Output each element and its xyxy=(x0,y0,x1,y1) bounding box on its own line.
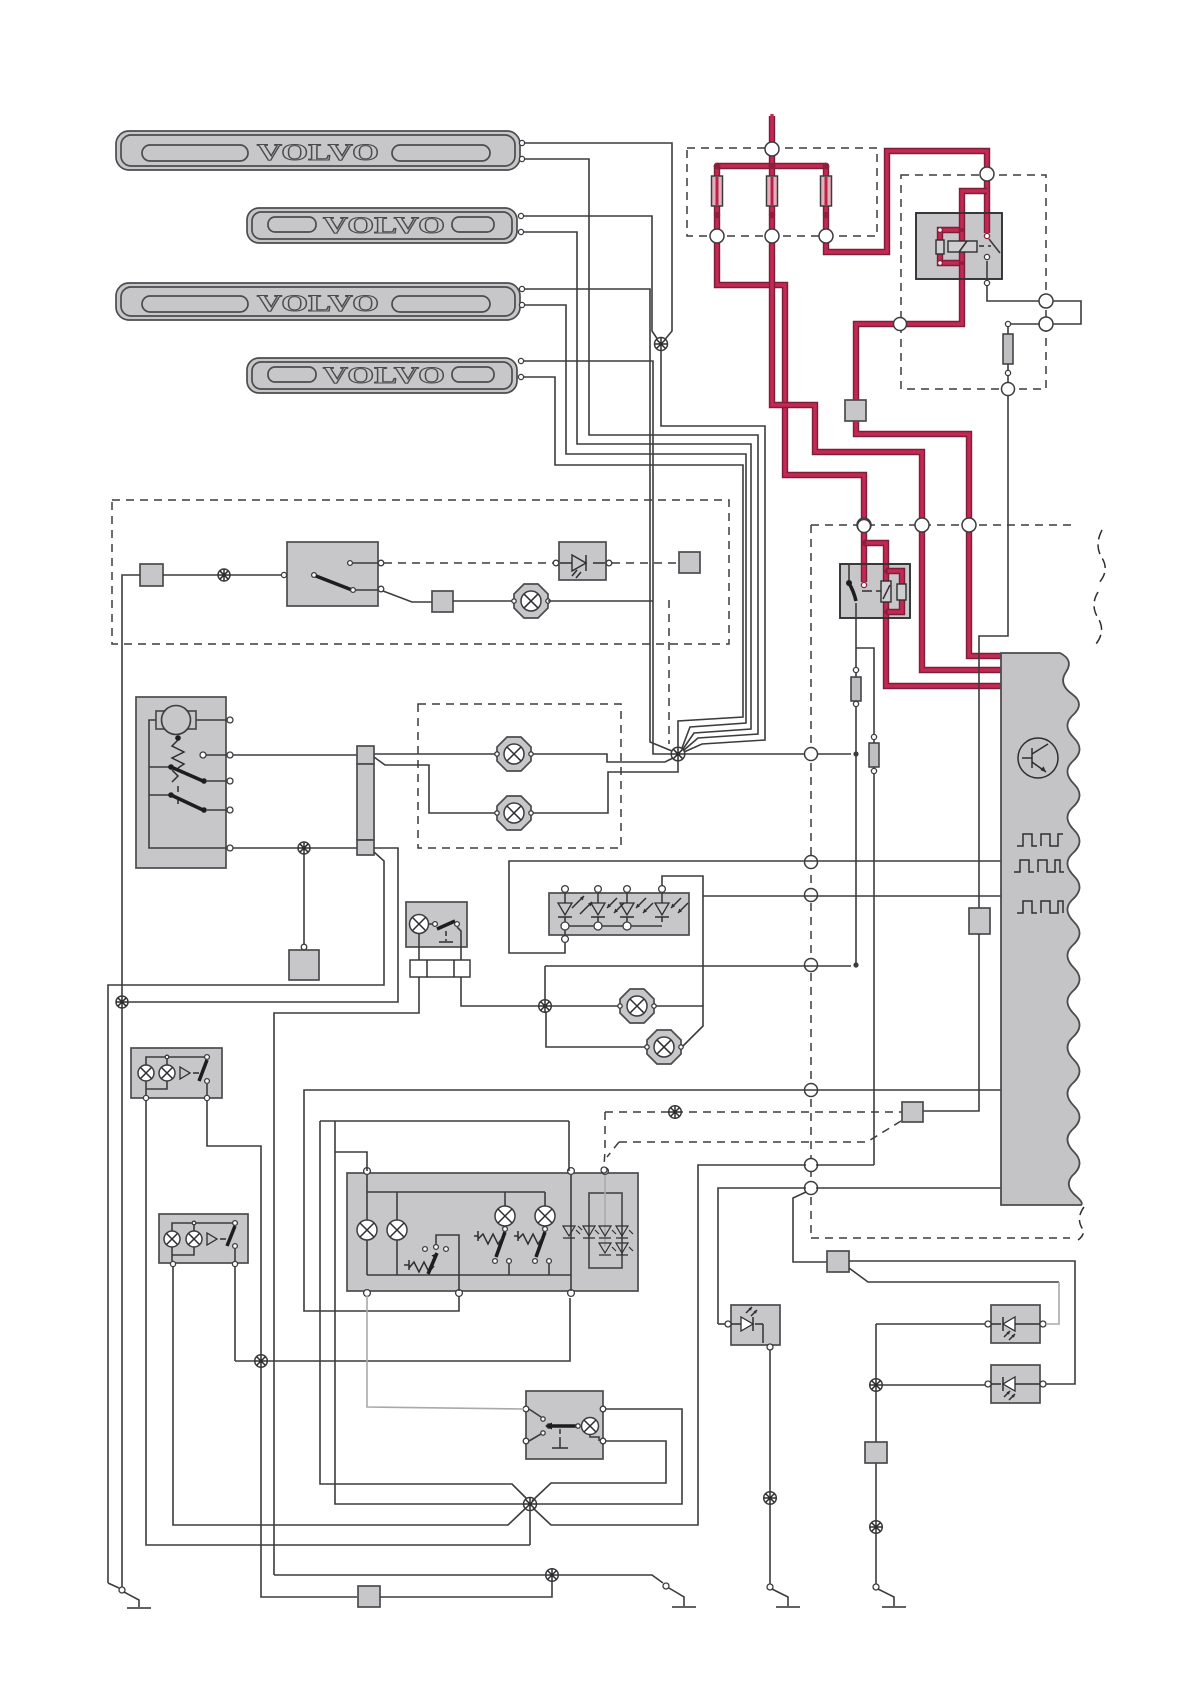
pulse waveform symbol 3 xyxy=(1017,901,1063,913)
connector square S-chain xyxy=(827,1251,849,1272)
wire K1 output down to CEM connector column xyxy=(979,395,1008,908)
splice on ground rail xyxy=(546,1569,559,1582)
wire bar to lamp L1 xyxy=(374,753,514,755)
door courtesy unit D2 xyxy=(159,1214,248,1267)
wire D2 lamps to X splice xyxy=(173,1267,528,1525)
wire console pin to trunk switch (light) xyxy=(367,1296,524,1409)
connector circle K2 feed xyxy=(858,520,871,533)
upper right LED module xyxy=(985,1305,1046,1343)
wire junction to console pin xyxy=(235,1298,570,1361)
svg-text:VOLVO: VOLVO xyxy=(323,363,445,388)
wire lamp L0 down to splice S2 via x653 xyxy=(548,600,653,602)
lamp L4 (octagon) xyxy=(645,1030,683,1064)
ground terminal block square xyxy=(289,950,319,980)
LED indicator module in door dashed box xyxy=(553,542,612,580)
dashed relay K1 box outline xyxy=(901,175,1046,389)
relay K1 xyxy=(916,213,1002,279)
lamp L0 (octagon) xyxy=(512,584,550,618)
lower right LED module xyxy=(985,1365,1046,1403)
connector strip under glove unit xyxy=(410,960,470,977)
transistor symbol in CEM xyxy=(1018,738,1058,778)
splice on D-switch rail xyxy=(255,1355,268,1368)
wire plate1 pin a to splice S1 xyxy=(524,143,672,343)
lamp L1 (octagon) xyxy=(495,737,533,771)
splice on dashed line A xyxy=(669,1106,682,1119)
wire D1 switch to ground rail xyxy=(207,1101,357,1597)
junction dots on red bus xyxy=(717,177,826,205)
wire C1 to left margin down xyxy=(122,575,140,1588)
wire bar ground A down left margin xyxy=(127,848,398,1002)
wire X splice SE to fuse chain xyxy=(533,1165,806,1525)
wire lamp L1 return to splice S2 xyxy=(533,754,673,762)
door sill scuff plate S4 (rear right) xyxy=(247,358,524,393)
splice on left margin ground wire xyxy=(116,996,128,1008)
door sill scuff plate S3 (front right) xyxy=(116,283,525,320)
wire console top pin B feed xyxy=(568,1121,570,1171)
splice S1 xyxy=(655,338,668,351)
wire splice S3 up to CEM line xyxy=(544,966,546,1000)
svg-text:VOLVO: VOLVO xyxy=(257,140,379,165)
wire switch to lamp L0 xyxy=(383,591,432,602)
wire fuse1 to relay K2 circuit (red) xyxy=(714,206,720,230)
motor unit M1 (power sunroof / seat) xyxy=(136,697,233,868)
wire X splice south to D1 rail xyxy=(529,1510,531,1545)
wire plate3 pin b xyxy=(524,305,746,748)
glove box lamp unit xyxy=(406,902,467,947)
dashed link CEM to console (line A) xyxy=(605,1111,902,1113)
relay K1 body xyxy=(916,213,1002,279)
pulse waveform symbol 1 xyxy=(1017,834,1063,846)
connector circles on dashed left edge xyxy=(805,748,818,761)
relay K2 coil parallel resistor branch (red) xyxy=(886,571,902,612)
connector square before lamp L0 xyxy=(432,591,453,612)
wire splice S2 to connector circle and junction xyxy=(685,753,851,755)
connector square on CEM link xyxy=(902,1102,923,1122)
ground G3 xyxy=(767,1584,800,1607)
dashed lamp box (courtesy lamps) xyxy=(418,704,621,848)
ground G4 xyxy=(873,1584,906,1607)
wire relay K2 coil to CEM (red) xyxy=(886,612,1001,686)
connector square on right rail xyxy=(865,1442,887,1463)
wire bar diagonal to lamp L2 xyxy=(374,757,514,813)
splice on motor ground wire xyxy=(298,842,310,854)
wire lamp L3 to lamp L4 xyxy=(656,1006,703,1046)
wire plate4 pin a xyxy=(523,361,672,754)
lamp L3 (octagon) xyxy=(618,989,656,1023)
wire fuse1 feed to relay K2 (red) xyxy=(861,531,867,582)
wire lamp L2 return to splice S2 xyxy=(533,761,678,813)
fuse F1 xyxy=(712,176,723,206)
wire glove lamp down xyxy=(274,933,419,1575)
connector square on ground rail xyxy=(358,1586,380,1607)
wire middle LED left pin xyxy=(718,1323,728,1325)
left long dashed box (door area) xyxy=(112,500,729,644)
wire connector to lamp L0 xyxy=(453,600,514,602)
fuse F3 xyxy=(821,176,832,206)
connector circle battery feed xyxy=(765,142,779,156)
wire D2 switch to junction splice xyxy=(234,1267,236,1361)
wire fuse2 to CEM (red) xyxy=(769,206,775,230)
wire LED array pin4 to lamp chain and CEM xyxy=(662,876,703,1006)
relay K2 body xyxy=(840,564,910,618)
wire relay K1 coil loop (red) xyxy=(940,230,962,263)
wire LED array ground bus to CEM xyxy=(509,861,1001,953)
wire splice S1 output into bundle xyxy=(661,350,765,752)
splice lower on right rail xyxy=(870,1521,883,1534)
connector square right of LED module xyxy=(679,552,700,573)
X splice (courtesy feed node) xyxy=(523,1497,537,1511)
wire relay K1 coil to CEM via connector (red) xyxy=(906,191,987,324)
wire fuse3 to relay K1 (red) xyxy=(823,206,829,230)
big dashed box bottom edge xyxy=(811,1237,1070,1239)
wire splice down to terminal block xyxy=(303,854,305,944)
wire battery feed (red) xyxy=(769,116,775,146)
middle LED module (illumination) xyxy=(725,1305,780,1350)
wire splice S3 to lamp L3 xyxy=(551,1005,618,1007)
wire lamp L4 return to splice S3 xyxy=(546,1012,645,1047)
fuse on K1 output xyxy=(1007,327,1009,334)
wire relay K1 switch output xyxy=(986,261,988,283)
wire plate2 pin b xyxy=(523,232,751,749)
wire bus branch to X splice west xyxy=(335,1121,682,1504)
dashed stub below xyxy=(668,600,670,744)
door sill scuff plate S1 (front left) xyxy=(116,131,525,170)
ground G1 (left margin) xyxy=(108,1583,151,1608)
connector circles on dashed top edge xyxy=(857,518,871,532)
relay K2 xyxy=(840,540,910,618)
connector square on K1 coil red wire xyxy=(845,400,866,421)
wire trunk to middle region xyxy=(718,1188,806,1324)
door courtesy unit D1 xyxy=(131,1048,222,1101)
connector square on CEM column xyxy=(969,908,990,934)
wire D1 lamps to X splice rail xyxy=(146,1101,530,1545)
wire splice to ground G2 xyxy=(558,1575,663,1583)
big dashed box (CEM area) top edge xyxy=(811,524,1077,526)
svg-text:VOLVO: VOLVO xyxy=(323,213,445,238)
connector circle relay K1 feed xyxy=(980,167,994,181)
dashed fuse box outline xyxy=(687,148,877,236)
wire junction to fuse chain vertical xyxy=(855,754,857,965)
wire feed bus y1121 xyxy=(320,1120,569,1122)
svg-text:VOLVO: VOLVO xyxy=(257,291,379,316)
wire middle LED to ground G3 xyxy=(769,1350,771,1584)
splice on middle LED ground wire xyxy=(764,1492,777,1505)
wire right rail to upper LED module xyxy=(876,1323,986,1325)
pulse waveform symbol 2 xyxy=(1014,860,1064,872)
wire K2 switch output with fuse xyxy=(855,603,857,670)
wire bus left branch to X splice NW diagonal xyxy=(320,1121,528,1500)
big dashed box left edge xyxy=(810,525,812,1238)
splice S3 xyxy=(539,1000,552,1013)
wire glove switch down to lamp L3 line xyxy=(457,927,538,1006)
connector square C1 in door dashed box xyxy=(140,564,163,586)
wire glove lamp rail to splice (gray) xyxy=(274,1574,546,1576)
torn connection marks above and below CEM xyxy=(1094,530,1105,644)
dashed link line B xyxy=(619,1121,901,1142)
dashed wire switch to LED module xyxy=(384,562,555,564)
wire plate3 pin a xyxy=(524,289,672,751)
door contact switch box xyxy=(281,542,383,606)
wire K2 branch to second fuse xyxy=(856,648,874,734)
wire trunk switch lower to X splice NE diagonal xyxy=(532,1441,666,1501)
door sill scuff plate S2 (rear left) xyxy=(247,208,524,243)
interior lighting console unit xyxy=(347,1168,638,1297)
lamp L2 (octagon) xyxy=(495,796,533,830)
wire fuse bus (red) xyxy=(717,163,826,169)
splice in door dashed box xyxy=(218,569,230,581)
wire plate1 pin b xyxy=(524,159,758,750)
wire CEM to upper LED right pin chain xyxy=(816,1187,1001,1189)
wire motor pin2 to connector bar xyxy=(233,754,357,756)
connector bar (in-line connector) xyxy=(357,746,374,855)
trunk light switch unit xyxy=(523,1391,606,1459)
LED array module (lighting sensor) xyxy=(549,886,689,943)
splice on right rail (to lower LED) xyxy=(870,1379,883,1392)
wire plate4 pin b xyxy=(523,377,743,748)
wire motor ground pin to bar with splice xyxy=(233,847,357,849)
wire CEM line y1090 xyxy=(304,1090,1001,1311)
wire bar ground B down left margin xyxy=(108,852,384,1583)
connector circle on K1 coil wire xyxy=(894,318,907,331)
wire C1 to switch with splice xyxy=(163,574,284,576)
wire console top pin A feed xyxy=(335,1152,367,1171)
splice S2 (interior lighting feed) xyxy=(671,747,685,761)
fuse output connector circles xyxy=(710,229,724,243)
ground G2 xyxy=(663,1583,696,1607)
fuse F2 xyxy=(767,176,778,206)
dashed wire LED module to connector square xyxy=(612,562,679,564)
CEM central electronic module (torn edge) xyxy=(1001,653,1082,1205)
wire plate2 pin a to splice S1 xyxy=(523,216,660,343)
